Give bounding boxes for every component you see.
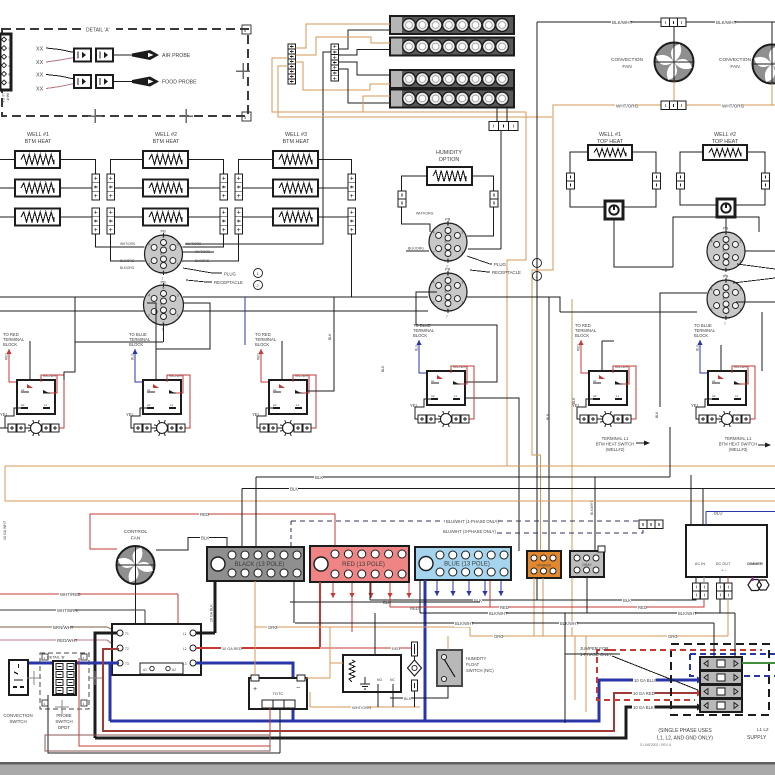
conn ps bottom — [412, 680, 418, 691]
red arrow 3 under RED block — [368, 583, 373, 598]
heater WELL #2 BTM row1 — [143, 151, 188, 168]
svg-text:AC IN: AC IN — [695, 562, 705, 566]
svg-text:BLK/WHT: BLK/WHT — [678, 611, 697, 616]
svg-text:DETAIL 'A': DETAIL 'A' — [86, 28, 110, 34]
wire lamp4 to conn3 a — [496, 107, 498, 122]
wire blue relay right — [196, 663, 293, 721]
svg-text:L2: L2 — [183, 647, 187, 651]
wire probe sw red — [79, 658, 270, 746]
terminal block ORANGE — [527, 551, 561, 578]
svg-text:WELL #2: WELL #2 — [714, 132, 736, 138]
svg-text:6: 6 — [447, 223, 449, 227]
wire fan1 top — [673, 27, 675, 44]
wire strips to plugL1 b — [111, 234, 145, 261]
wire w1t left — [570, 152, 588, 173]
svg-text:4: 4 — [711, 239, 713, 243]
wire WHT/ORG bottom — [310, 706, 420, 708]
svg-text:BLK: BLK — [623, 598, 631, 603]
svg-text:3: 3 — [739, 239, 741, 243]
wire fuse down — [414, 656, 416, 662]
svg-text:SWITCH: SWITCH — [9, 719, 26, 724]
wire blk B to lamp1 — [339, 30, 391, 49]
wire r2 bus — [560, 311, 697, 313]
wire blk y477 — [256, 476, 670, 478]
svg-text:RECEPTACLE: RECEPTACLE — [492, 270, 521, 275]
svg-text:DPDT: DPDT — [58, 725, 70, 730]
svg-text:PLUG: PLUG — [494, 262, 507, 267]
wire bat blk down — [279, 708, 281, 753]
red dashed path — [597, 650, 695, 700]
svg-text:CONVECTION: CONVECTION — [611, 57, 644, 63]
svg-text:BTM HEAT SWITCH: BTM HEAT SWITCH — [596, 442, 634, 447]
wire blk x549 — [548, 297, 550, 551]
svg-text:BLOCK: BLOCK — [694, 333, 708, 338]
heater well1 top — [588, 145, 632, 160]
svg-text:L1: L1 — [183, 632, 187, 636]
strip w3r b — [348, 208, 356, 234]
svg-text:2: 2 — [536, 275, 538, 279]
svg-text:RECEPTACLE: RECEPTACLE — [214, 280, 243, 285]
wire timer left — [330, 627, 343, 663]
svg-text:4: 4 — [148, 293, 150, 297]
wire dimmer feed b — [702, 489, 704, 525]
receptacle P2 left — [144, 280, 184, 333]
wire org lamp4 entry — [363, 96, 390, 112]
svg-text:3: 3 — [177, 293, 179, 297]
wire plugL2 right a — [183, 296, 428, 298]
pressure switch PS — [408, 660, 422, 676]
wire blk drop x242 — [241, 489, 243, 548]
svg-text:BRN/WHT: BRN/WHT — [53, 625, 74, 630]
svg-text:8: 8 — [163, 270, 165, 274]
svg-text:CONVECTION: CONVECTION — [3, 713, 32, 718]
wire 10GA RED bottom — [103, 649, 697, 731]
svg-text:T3: T3 — [125, 662, 129, 666]
svg-text:10 GA: 10 GA — [1, 93, 5, 103]
anchor b3 — [42, 700, 48, 706]
dimmer box — [686, 525, 767, 577]
wire green gnd — [742, 662, 775, 664]
blue arrow 5 under BLUE block — [498, 581, 503, 596]
svg-text:6: 6 — [725, 232, 727, 236]
pigtail w1t r — [653, 173, 661, 189]
svg-text:XX: XX — [36, 87, 44, 93]
svg-text:TDTC: TDTC — [273, 691, 284, 696]
wire conn3 down — [500, 131, 502, 250]
wire lamp4 to conn3 b — [506, 107, 508, 122]
terminal block RED 13 pole — [310, 546, 409, 582]
air probe lead — [113, 54, 132, 56]
wire dimmer blu — [705, 512, 707, 526]
red arrow 5 under RED block — [406, 583, 411, 598]
label WHT/ORG right — [721, 104, 740, 110]
svg-text:RED: RED — [410, 606, 419, 611]
wire blk B to lamp2 — [339, 50, 391, 56]
svg-text:L1: L1 — [170, 403, 174, 407]
svg-text:BTM HEAT: BTM HEAT — [283, 139, 311, 145]
strip w3r a — [348, 174, 356, 200]
wire BLK/WHT bus — [537, 21, 775, 23]
wire probe sw blk — [48, 695, 280, 753]
svg-text:5: 5 — [445, 290, 447, 294]
wire blk B stub — [323, 52, 331, 63]
wire org y501 — [5, 500, 775, 502]
wire red to fuse — [320, 647, 411, 649]
convection switch — [9, 660, 28, 695]
svg-text:WHT/ORG: WHT/ORG — [352, 705, 371, 710]
svg-text:A1: A1 — [143, 668, 147, 672]
svg-text:RED: RED — [200, 512, 209, 517]
svg-text:FAN: FAN — [131, 536, 141, 542]
svg-text:RED: RED — [500, 605, 509, 610]
svg-text:T2: T2 — [125, 647, 129, 651]
svg-text:PB: PB — [161, 229, 167, 234]
wire plugL1 to strips r — [183, 234, 224, 247]
wire plugL2 right b — [183, 310, 428, 312]
svg-text:TERMINAL L1: TERMINAL L1 — [725, 436, 753, 441]
switch S5 assembly — [572, 323, 636, 427]
svg-text:WHT/RED: WHT/RED — [60, 592, 81, 597]
timer TDTC — [249, 678, 307, 709]
wire RED y607 — [390, 599, 704, 607]
wire org y466 left drop — [4, 466, 6, 501]
pigtail w2t r — [762, 173, 770, 189]
wire supply top b — [734, 613, 736, 657]
blue main drop — [424, 580, 427, 721]
svg-text:4: 4 — [711, 287, 713, 291]
red arrow 4 under RED block — [387, 583, 392, 598]
wire org drop x255 — [254, 581, 256, 674]
svg-text:XX: XX — [36, 73, 44, 79]
convection fan 2 — [753, 45, 775, 84]
convection fan 1 — [655, 43, 694, 82]
svg-text:BLK: BLK — [290, 486, 298, 491]
svg-text:6: 6 — [725, 280, 727, 284]
wire well1 feeds — [0, 159, 15, 161]
svg-text:ORG: ORG — [494, 634, 504, 639]
wire red bend — [485, 606, 490, 608]
wire blk vertical x537 — [536, 22, 538, 551]
svg-text:A1: A1 — [593, 379, 597, 383]
detail A corner mark bottom-right — [242, 112, 251, 121]
svg-text:2: 2 — [433, 301, 435, 305]
wire 10GA RED — [196, 647, 320, 649]
wire org vertical x507 — [507, 112, 526, 466]
plug C1 — [429, 217, 467, 270]
svg-text:BLACK (13 POLE): BLACK (13 POLE) — [235, 562, 285, 568]
svg-text:+: + — [253, 686, 257, 693]
svg-text:10 GA RED: 10 GA RED — [222, 647, 242, 651]
wire s6 arrow — [758, 444, 766, 446]
svg-text:WHT/ORG: WHT/ORG — [722, 104, 745, 109]
wire BLKWHT y623 — [295, 622, 714, 624]
svg-text:BLU: BLU — [696, 344, 700, 351]
wire strips to plugL1 a — [96, 234, 145, 247]
wire s5 arrow — [636, 442, 645, 444]
svg-text:WHT/BRN: WHT/BRN — [57, 608, 78, 613]
wire w2t left — [680, 152, 703, 173]
air probe connectors — [74, 49, 113, 62]
thermostat T2 — [717, 199, 735, 217]
wire BLK y600 — [370, 599, 696, 600]
svg-text:A2: A2 — [712, 394, 716, 398]
wire blk x565 — [564, 613, 566, 723]
strip w1r a — [92, 174, 100, 200]
wire probe2 blk — [46, 75, 74, 80]
wire thick blk relay — [95, 633, 117, 738]
svg-text:2: 2 — [711, 308, 713, 312]
wire org vertical x572 — [571, 299, 573, 636]
wire blk x370 — [369, 581, 371, 600]
svg-text:BTM HEAT: BTM HEAT — [153, 139, 181, 145]
wire org A to lamp1 — [296, 24, 391, 48]
svg-text:BLK: BLK — [381, 365, 385, 372]
svg-text:BLK/WHT: BLK/WHT — [455, 621, 474, 626]
jumper line — [612, 656, 698, 690]
svg-text:WELL #1: WELL #1 — [599, 132, 621, 138]
svg-text:PB: PB — [445, 267, 451, 272]
lamp strip 1 — [390, 16, 514, 34]
svg-text:5: 5 — [160, 252, 162, 256]
wire org block drop b — [542, 578, 544, 636]
wire w2t right — [747, 152, 765, 173]
svg-text:HUMIDITY: HUMIDITY — [436, 150, 462, 156]
switch S6 assembly — [691, 323, 755, 427]
wire red x490 — [489, 581, 491, 607]
thermostat T1 — [605, 201, 623, 219]
detail A dashed border — [2, 29, 248, 116]
lamp strip 2 — [390, 38, 514, 56]
svg-text:DIMMER: DIMMER — [747, 562, 763, 566]
wire plugR2 right — [736, 301, 775, 303]
svg-text:A1: A1 — [147, 388, 151, 392]
svg-text:A2: A2 — [147, 403, 151, 407]
red drop from RED block — [319, 582, 321, 647]
svg-text:A1: A1 — [21, 388, 25, 392]
svg-text:BLOCK: BLOCK — [129, 342, 143, 347]
terminal block GRAY — [570, 551, 604, 577]
strip w2r a — [220, 174, 228, 200]
switch S2 assembly — [126, 332, 190, 436]
wire org block drop a — [533, 578, 535, 636]
wire bat red down — [269, 708, 271, 746]
conn3 under lamps — [489, 122, 518, 131]
svg-text:BLOCK: BLOCK — [413, 333, 427, 338]
wire plugL2 bus a — [0, 296, 144, 298]
wires well3-right — [318, 160, 352, 175]
wire org loop A left 1 — [272, 58, 526, 112]
svg-text:1-PHASE ONLY: 1-PHASE ONLY — [580, 652, 612, 657]
svg-text:HUMIDITY: HUMIDITY — [466, 656, 486, 661]
svg-text:A2: A2 — [593, 394, 597, 398]
wire dimmer feed a — [690, 475, 692, 525]
wire fan2 bottom org — [771, 84, 773, 106]
svg-text:PB: PB — [723, 274, 729, 279]
svg-text:BLK/WHT: BLK/WHT — [590, 501, 594, 515]
svg-text:L1 L2: L1 L2 — [757, 727, 769, 732]
svg-text:5: 5 — [723, 297, 725, 301]
svg-text:1: 1 — [257, 272, 259, 276]
wire float top — [447, 636, 449, 650]
label BLK/WHT right — [715, 20, 734, 26]
dashed BLU/WHT 3-phase — [443, 529, 643, 533]
svg-text:L1: L1 — [616, 394, 620, 398]
svg-text:AIR PROBE: AIR PROBE — [162, 53, 191, 59]
svg-text:BLU/WHT (3-PHASE ONLY): BLU/WHT (3-PHASE ONLY) — [443, 529, 497, 534]
svg-text:1: 1 — [739, 260, 741, 264]
strip w2l b — [107, 208, 115, 234]
svg-text:SWITCH (N/C): SWITCH (N/C) — [466, 668, 494, 673]
wire blk x537b — [536, 577, 538, 600]
wire org x586 — [585, 636, 587, 712]
svg-text:OPTION: OPTION — [439, 157, 460, 163]
svg-text:RED: RED — [638, 605, 647, 610]
svg-text:10 GA WHT: 10 GA WHT — [3, 520, 7, 540]
svg-text:1: 1 — [461, 301, 463, 305]
wire w1t l down — [570, 189, 605, 207]
wire fan down — [135, 584, 137, 624]
svg-text:BLK: BLK — [546, 413, 550, 420]
svg-text:2: 2 — [433, 251, 435, 255]
wire 10GA BLK bottom — [95, 707, 697, 738]
svg-text:BLK: BLK — [572, 397, 576, 404]
heater WELL #1 BTM row2 — [15, 180, 60, 197]
wire probe1 pink — [46, 58, 74, 63]
svg-text:6: 6 — [447, 273, 449, 277]
svg-text:ORG: ORG — [668, 634, 678, 639]
timer/limit box — [343, 655, 401, 692]
svg-text:8: 8 — [163, 321, 165, 325]
detail A corner mark top-right — [242, 25, 251, 34]
svg-text:BLK: BLK — [328, 333, 332, 340]
switch S1 assembly — [0, 332, 64, 436]
wire fan2 top — [771, 22, 773, 45]
svg-text:2: 2 — [257, 284, 259, 288]
red arrow supply — [697, 690, 703, 697]
svg-text:BLOCK: BLOCK — [255, 342, 269, 347]
svg-text:BTM HEAT SWITCH: BTM HEAT SWITCH — [719, 442, 757, 447]
svg-text:CONTROL: CONTROL — [124, 529, 148, 535]
svg-text:ORG: ORG — [268, 625, 278, 630]
wire blk x587 — [586, 577, 588, 613]
blue arrow 3 under BLUE block — [466, 581, 471, 596]
anchor b2 — [81, 654, 87, 660]
cross marks detail B — [33, 671, 35, 685]
wire blkwht x420 — [419, 581, 421, 613]
svg-text:BLU/WHT (1-PHASE ONLY): BLU/WHT (1-PHASE ONLY) — [446, 519, 500, 524]
wire switch link bus — [29, 341, 31, 380]
pigtail w2t l — [677, 173, 685, 189]
wire blk B to lamp3 — [339, 62, 391, 75]
svg-text:RED (13 POLE): RED (13 POLE) — [342, 562, 385, 568]
svg-text:4: 4 — [433, 230, 435, 234]
connector J1 block left edge — [0, 34, 11, 90]
svg-text:10 GA RED: 10 GA RED — [633, 691, 655, 696]
svg-text:A1: A1 — [712, 379, 716, 383]
svg-text:BLK: BLK — [655, 411, 659, 418]
svg-text:SWITCH: SWITCH — [55, 719, 72, 724]
svg-text:RED: RED — [257, 353, 261, 360]
wire org y466 — [5, 465, 775, 467]
supply terminal block — [700, 657, 742, 670]
svg-text:A2: A2 — [172, 668, 176, 672]
svg-text:7: 7 — [446, 315, 448, 319]
blue arrow 4 under BLUE block — [482, 581, 487, 596]
svg-text:8: 8 — [447, 258, 449, 262]
wire blk B to lamp4 — [339, 69, 391, 103]
svg-text:SUPPLY: SUPPLY — [747, 735, 767, 741]
wire s6 right vertical — [761, 312, 763, 371]
air probe symbol — [132, 50, 191, 60]
svg-text:10 GA BLK: 10 GA BLK — [210, 604, 214, 622]
blue arrow supply — [697, 677, 703, 684]
svg-text:BLK/WHT: BLK/WHT — [560, 621, 579, 626]
wire w2t l down — [680, 189, 717, 205]
conn3 fan1 — [661, 18, 686, 27]
svg-text:BLUE (13 POLE): BLUE (13 POLE) — [444, 562, 490, 568]
svg-text:RED: RED — [5, 353, 9, 360]
wire supply top a — [713, 627, 715, 657]
svg-text:(WELL#2): (WELL#2) — [606, 447, 625, 452]
svg-text:PROBE: PROBE — [56, 713, 71, 718]
svg-text:WHT: WHT — [6, 93, 10, 101]
svg-text:2: 2 — [148, 314, 150, 318]
control fan — [117, 546, 155, 584]
svg-text:A2: A2 — [273, 403, 277, 407]
svg-text:JUMPER FOR: JUMPER FOR — [580, 646, 609, 651]
svg-text:(WELL#3): (WELL#3) — [729, 447, 748, 452]
wire org A to lamp2 — [296, 37, 391, 55]
footer bar — [0, 762, 775, 775]
svg-text:4: 4 — [433, 280, 435, 284]
fuse F1 — [412, 642, 418, 656]
svg-text:6: 6 — [163, 286, 165, 290]
svg-text:WHT/ORG: WHT/ORG — [416, 212, 434, 216]
svg-text:A1: A1 — [273, 388, 277, 392]
anchor b4 — [81, 700, 87, 706]
svg-text:1: 1 — [739, 308, 741, 312]
wires well1-well2 — [60, 160, 96, 175]
pigtail w1t l — [567, 173, 575, 189]
wire WHT/BRN — [0, 609, 145, 611]
wire s5 up — [601, 341, 603, 371]
svg-text:A2: A2 — [431, 394, 435, 398]
svg-text:1: 1 — [536, 262, 538, 266]
wire s2 up — [147, 303, 156, 380]
svg-text:PB: PB — [161, 280, 167, 285]
lamp strip 3 — [390, 70, 514, 88]
heater WELL #3 BTM row3 — [273, 209, 318, 226]
svg-text:BLK/WHT: BLK/WHT — [489, 611, 508, 616]
food probe lead — [113, 81, 132, 83]
svg-text:ORANGE: ORANGE — [537, 564, 552, 568]
svg-text:10 GA BLK: 10 GA BLK — [633, 705, 654, 710]
conn3 fan org — [661, 101, 686, 110]
wire WHT/RED — [0, 593, 178, 595]
svg-text:NC: NC — [390, 678, 395, 682]
svg-text:BLK/ORG: BLK/ORG — [195, 259, 210, 263]
wire BRN/WHT — [0, 626, 107, 628]
svg-text:A2: A2 — [21, 403, 25, 407]
wire t2 down — [725, 217, 727, 231]
svg-text:1: 1 — [177, 314, 179, 318]
svg-text:FAN: FAN — [730, 64, 740, 70]
svg-text:3: 3 — [739, 287, 741, 291]
svg-text:DC OUT: DC OUT — [716, 562, 731, 566]
receptacle R2 — [707, 274, 745, 327]
strip w2r b — [220, 208, 228, 234]
wire s4 out — [461, 398, 519, 551]
